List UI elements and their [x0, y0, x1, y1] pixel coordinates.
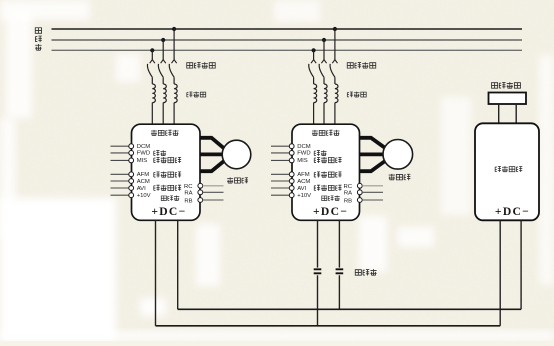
- wire QF2-2 breaker to reactor: [323, 77, 325, 84]
- pin ACM terminal circle: [129, 179, 134, 184]
- svg-text:+10V: +10V: [297, 193, 311, 199]
- label 模拟输入: [314, 185, 341, 191]
- label 副电机 (aux motor): [389, 174, 411, 180]
- pin RA terminal circle: [357, 190, 362, 195]
- label 制动单元 (braking unit): [495, 166, 522, 172]
- pin RA terminal circle: [198, 190, 203, 195]
- pin DCM lead wire: [111, 145, 129, 147]
- motor feeder U phase 主变频器: [200, 138, 224, 149]
- wire QF2-3 breaker to reactor: [334, 77, 336, 84]
- inverter box 副变频器: [292, 124, 360, 220]
- wire QF2-3 bus to breaker: [334, 29, 336, 60]
- pin DCM lead wire: [271, 145, 289, 147]
- wire resistor left leg: [498, 104, 500, 123]
- pin AVI terminal circle: [289, 186, 294, 191]
- junction dot QF2-1 on bus: [312, 48, 316, 52]
- label 电抗器 (reactor) group2: [347, 92, 366, 98]
- pin +10V lead wire: [111, 194, 129, 196]
- junction dot QF1-2 on bus: [161, 38, 165, 42]
- wire braking unit + terminal down: [499, 220, 501, 325]
- pin RB terminal circle: [198, 198, 203, 203]
- label 故障复位: [154, 157, 181, 163]
- svg-text:ACM: ACM: [297, 179, 310, 185]
- breaker QF2-3 fixed-contact chevron: [332, 60, 337, 64]
- motor feeder W phase 副变频器: [360, 161, 386, 171]
- breaker QF1-1 blade: [147, 64, 152, 77]
- label 接触器 (contactor): [355, 269, 376, 275]
- wire QF1-3 breaker to reactor: [173, 77, 175, 84]
- svg-text:RB: RB: [184, 198, 192, 204]
- breaker QF2-3 blade: [330, 64, 335, 77]
- wire inverter1 + terminal down: [155, 220, 157, 325]
- svg-text:FWD: FWD: [297, 151, 310, 157]
- junction dot QF1-3 on bus: [172, 27, 176, 31]
- svg-text:+DC−: +DC−: [151, 205, 186, 218]
- svg-text:RA: RA: [344, 191, 352, 197]
- wire inverter2 - terminal to contactor: [338, 220, 340, 267]
- label 准备好 (ready): [161, 195, 179, 200]
- reactor coil QF2-2: [324, 84, 327, 103]
- svg-text:AFM: AFM: [137, 172, 150, 178]
- breaker QF1-1 fixed-contact chevron: [150, 60, 155, 64]
- label 电抗器 (reactor) group1: [187, 92, 206, 98]
- wire QF2-1 bus to breaker: [313, 50, 315, 60]
- power bus L1: [52, 28, 523, 30]
- wire contactor to + bus: [317, 275, 319, 326]
- wire inverter1 - terminal down: [177, 220, 179, 309]
- pin MIS terminal circle: [129, 158, 134, 163]
- pin +10V lead wire: [271, 194, 289, 196]
- pin FWD terminal circle: [289, 151, 294, 156]
- wire QF2-3 reactor to inverter: [334, 103, 336, 125]
- pin RC terminal circle: [357, 183, 362, 188]
- svg-text:+DC−: +DC−: [495, 205, 530, 218]
- pin AFM lead wire: [111, 173, 129, 175]
- motor 主电机 circle: [222, 140, 251, 169]
- pin MIS terminal circle: [289, 158, 294, 163]
- svg-text:AVI: AVI: [137, 186, 146, 192]
- label 空气开关 (air breaker) group2: [347, 62, 376, 68]
- motor 副电机 circle: [383, 140, 413, 170]
- svg-text:AFM: AFM: [297, 172, 310, 178]
- pin RB lead wire: [203, 199, 224, 201]
- label 主电源 (main power): [35, 28, 42, 51]
- wire braking unit - terminal down: [520, 220, 522, 309]
- svg-text:FWD: FWD: [137, 151, 150, 157]
- breaker QF1-2 fixed-contact chevron: [161, 60, 166, 64]
- pin MIS lead wire: [271, 159, 289, 161]
- pin RA lead wire: [362, 191, 383, 193]
- junction dot QF1-1 on bus: [150, 48, 154, 52]
- reactor coil QF1-3: [174, 84, 177, 103]
- power bus L2: [52, 39, 523, 41]
- breaker QF1-3 fixed-contact chevron: [172, 60, 177, 64]
- label 故障复位: [314, 157, 341, 163]
- pin MIS lead wire: [111, 159, 129, 161]
- wire QF1-2 breaker to reactor: [162, 77, 164, 84]
- pin ACM terminal circle: [289, 179, 294, 184]
- label 空气开关 (air breaker) group1: [187, 62, 216, 68]
- breaker QF2-2 blade: [319, 64, 324, 77]
- motor feeder W phase 主变频器: [200, 161, 224, 171]
- pin RC lead wire: [203, 185, 224, 187]
- wire QF2-2 reactor to inverter: [323, 103, 325, 125]
- svg-text:DCM: DCM: [297, 144, 311, 150]
- motor feeder U phase 副变频器: [360, 138, 386, 148]
- breaker QF1-2 blade: [158, 64, 163, 77]
- svg-text:MIS: MIS: [297, 158, 308, 164]
- motor feeder V phase 主变频器: [200, 152, 224, 156]
- wire QF2-1 reactor to inverter: [313, 103, 315, 125]
- pin RA lead wire: [203, 191, 224, 193]
- pin RC lead wire: [362, 185, 383, 187]
- pin DCM terminal circle: [129, 144, 134, 149]
- svg-text:+DC−: +DC−: [313, 205, 348, 218]
- label 模拟输出: [314, 172, 341, 178]
- reactor coil QF1-2: [163, 84, 166, 103]
- reactor coil QF1-1: [152, 84, 155, 103]
- breaker QF2-1 blade: [309, 64, 314, 77]
- svg-text:AVI: AVI: [297, 186, 306, 192]
- label 运转: [314, 150, 326, 156]
- label 制动电阻 (brake resistor): [492, 82, 521, 88]
- pin RB terminal circle: [357, 198, 362, 203]
- breaker QF2-1 fixed-contact chevron: [311, 60, 316, 64]
- contactor KM contact on + wire: [314, 269, 322, 273]
- inverter box 主变频器: [132, 124, 201, 220]
- pin AVI terminal circle: [129, 186, 134, 191]
- pin +10V terminal circle: [289, 193, 294, 198]
- svg-text:RC: RC: [343, 184, 352, 190]
- pin RB lead wire: [362, 199, 383, 201]
- wire QF1-1 bus to breaker: [151, 50, 153, 60]
- wire inverter2 + terminal to contactor: [317, 220, 319, 267]
- pin FWD lead wire: [111, 152, 129, 154]
- breaker QF1-3 blade: [169, 64, 174, 77]
- pin AVI lead wire: [271, 187, 289, 189]
- wire resistor right leg: [515, 104, 517, 123]
- label 模拟输入: [154, 185, 181, 191]
- label 主电机 (main motor): [227, 177, 248, 183]
- power bus L3: [52, 49, 523, 51]
- pin +10V terminal circle: [129, 193, 134, 198]
- pin ACM lead wire: [271, 180, 289, 182]
- motor feeder V phase 副变频器: [360, 152, 386, 156]
- braking unit box 制动单元: [475, 123, 539, 220]
- svg-text:DCM: DCM: [137, 144, 151, 150]
- junction dot QF2-2 on bus: [322, 38, 326, 42]
- wire QF1-1 breaker to reactor: [151, 77, 153, 84]
- wire QF2-1 breaker to reactor: [313, 77, 315, 84]
- label 运转: [154, 150, 166, 156]
- wire QF2-2 bus to breaker: [323, 40, 325, 60]
- reactor coil QF2-1: [314, 84, 317, 103]
- pin AFM terminal circle: [129, 172, 134, 177]
- wire QF1-3 reactor to inverter: [173, 103, 175, 125]
- pin DCM terminal circle: [289, 144, 294, 149]
- pin AFM terminal circle: [289, 172, 294, 177]
- breaker QF2-2 fixed-contact chevron: [321, 60, 326, 64]
- DC minus bus wire: [178, 308, 521, 310]
- svg-text:MIS: MIS: [137, 158, 148, 164]
- svg-text:RC: RC: [184, 184, 193, 190]
- pin RC terminal circle: [198, 183, 203, 188]
- svg-text:ACM: ACM: [137, 179, 150, 185]
- title 主变频器: [151, 130, 179, 136]
- pin ACM lead wire: [111, 180, 129, 182]
- pin AFM lead wire: [271, 173, 289, 175]
- svg-text:+10V: +10V: [137, 193, 151, 199]
- wire contactor to - bus: [338, 275, 340, 309]
- wire QF1-2 bus to breaker: [162, 40, 164, 60]
- wire QF1-3 bus to breaker: [173, 29, 175, 60]
- svg-text:RB: RB: [344, 198, 352, 204]
- braking resistor R body: [489, 93, 527, 105]
- label 模拟输出: [154, 172, 181, 178]
- wire QF1-1 reactor to inverter: [151, 103, 153, 125]
- contactor KM contact on - wire: [336, 269, 344, 273]
- label 准备好 (ready): [322, 195, 340, 200]
- pin FWD lead wire: [271, 152, 289, 154]
- pin AVI lead wire: [111, 187, 129, 189]
- wire QF1-2 reactor to inverter: [162, 103, 164, 125]
- svg-text:RA: RA: [184, 191, 192, 197]
- junction dot QF2-3 on bus: [333, 27, 337, 31]
- title 副变频器: [312, 130, 340, 136]
- pin FWD terminal circle: [129, 151, 134, 156]
- DC plus bus wire: [156, 325, 501, 327]
- reactor coil QF2-3: [335, 84, 338, 103]
